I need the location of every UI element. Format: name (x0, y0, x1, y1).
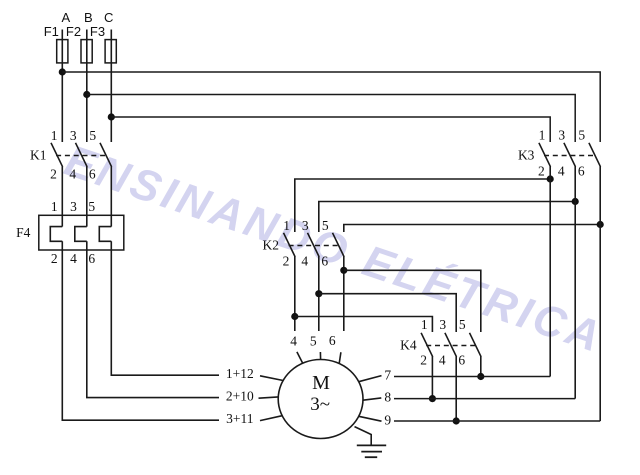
wire phase B vertical (B to K1 pin 3) (86, 30, 88, 143)
svg-text:2: 2 (51, 251, 58, 266)
svg-text:A: A (61, 10, 70, 25)
motor lead 5 tick (319, 352, 321, 360)
F4 heater element pole 1-2 (50, 227, 62, 242)
wire line 9 (394, 420, 600, 422)
K1 contact arm pole 3-4 (76, 143, 88, 167)
svg-text:1: 1 (421, 317, 428, 332)
motor lead 7 tick (359, 376, 382, 382)
svg-text:4: 4 (558, 164, 565, 179)
junction K2 pin 4 node (315, 290, 322, 297)
motor lead 6 tick (339, 352, 341, 363)
wire K2 pin 6 to motor terminal 6 (343, 257, 345, 332)
svg-text:3: 3 (558, 127, 565, 142)
svg-text:F3: F3 (90, 24, 105, 39)
motor lead 1+12 tick (260, 376, 283, 381)
wire motor frame to ground (355, 427, 372, 445)
svg-text:3~: 3~ (310, 394, 330, 415)
svg-text:2: 2 (420, 352, 427, 367)
svg-text:9: 9 (384, 412, 391, 427)
svg-text:1: 1 (51, 199, 58, 214)
svg-text:4: 4 (70, 251, 77, 266)
junction K4 pin 6 node (477, 373, 484, 380)
overload relay F4 body (39, 215, 124, 250)
wire K3 pin 6 riser to line 9 (599, 167, 601, 422)
ground symbol bar 2 (361, 451, 382, 453)
wire F4 pin 6 to motor terminal 1+12 (111, 241, 219, 375)
svg-text:4: 4 (290, 334, 297, 349)
wire K1 pin 2 to F4 heater 1 (61, 167, 63, 227)
motor lead 9 tick (359, 416, 382, 421)
junction K3 pin 6 node (597, 221, 604, 228)
wire K3 pin 4 rail to K2 pin 3 (319, 202, 575, 233)
motor lead 3+11 tick (260, 416, 282, 421)
K4 contact arm pole 3-4 (445, 333, 457, 357)
K4 contact arm pole 5-6 (470, 333, 482, 357)
fuse F1 body (57, 40, 68, 63)
svg-text:6: 6 (89, 166, 96, 181)
svg-text:F1: F1 (44, 24, 59, 39)
K2 contact arm pole 5-6 (333, 233, 345, 257)
svg-text:4: 4 (69, 166, 76, 181)
svg-text:1: 1 (539, 127, 546, 142)
svg-text:6: 6 (329, 333, 336, 348)
svg-text:2: 2 (538, 164, 545, 179)
svg-text:C: C (104, 10, 113, 25)
contactor K4 coil-link dashed line (426, 345, 475, 347)
motor lead 2+10 tick (259, 397, 279, 398)
K2 contact arm pole 3-4 (308, 233, 320, 257)
wire F4 pin 4 to motor terminal 2+10 (87, 241, 219, 397)
svg-text:4: 4 (439, 352, 446, 367)
svg-text:3: 3 (70, 199, 77, 214)
junction K4 pin 2 node (429, 395, 436, 402)
junction node C on phase C (108, 113, 115, 120)
wire K3 pin 2 riser to line 7 (549, 167, 551, 377)
K1 contact arm pole 5-6 (100, 143, 112, 167)
wire K2 pin 4 to motor terminal 5 (318, 257, 320, 332)
wire K2 pin 4 rail to K4 pin 3 (319, 294, 456, 332)
svg-text:5: 5 (322, 218, 329, 233)
F4 heater element pole 5-6 (99, 227, 111, 242)
wire K4 pin 4 to line 9 (455, 357, 457, 422)
junction K2 pin 6 node (340, 267, 347, 274)
svg-text:M: M (312, 372, 330, 394)
wire K1 pin 4 to F4 heater 3 (86, 167, 88, 227)
svg-text:K1: K1 (30, 148, 47, 163)
F4 heater element pole 3-4 (75, 227, 87, 242)
svg-text:2+10: 2+10 (226, 388, 254, 403)
svg-text:5: 5 (459, 317, 466, 332)
svg-text:K2: K2 (263, 238, 280, 253)
junction K2 pin 2 node (291, 313, 298, 320)
wire K2 pin 2 to motor terminal 4 (294, 257, 296, 332)
ground symbol bar 3 (365, 456, 377, 458)
K1 contact arm pole 1-2 (51, 143, 63, 167)
junction node A on phase A (59, 68, 66, 75)
wire phase A vertical (A to K1 pin 1) (61, 30, 63, 143)
K3 contact arm pole 5-6 (589, 143, 601, 167)
wire K2 pin 2 rail to K4 pin 1 (295, 317, 433, 333)
svg-text:2: 2 (283, 253, 290, 268)
svg-text:1+12: 1+12 (226, 366, 254, 381)
svg-text:6: 6 (321, 253, 328, 268)
wire phase C vertical (C to K1 pin 5) (110, 30, 112, 143)
fuse F2 body (81, 40, 92, 63)
motor lead 8 tick (363, 398, 381, 400)
junction K4 pin 4 node (453, 417, 460, 424)
fuse F3 body (105, 40, 116, 63)
svg-text:5: 5 (310, 333, 317, 348)
svg-text:B: B (84, 10, 93, 25)
svg-text:6: 6 (88, 251, 95, 266)
svg-text:3+11: 3+11 (226, 411, 253, 426)
wire line 7 (394, 376, 550, 378)
svg-text:3: 3 (439, 317, 446, 332)
junction K3 pin 2 node (547, 175, 554, 182)
wire phase C rail to K3 pin 1 (111, 117, 550, 142)
svg-text:K3: K3 (518, 148, 535, 163)
svg-text:6: 6 (578, 164, 585, 179)
wire K4 pin 6 to line 7 (480, 357, 482, 377)
svg-text:7: 7 (384, 368, 391, 383)
svg-text:F4: F4 (16, 225, 31, 240)
wire K4 pin 2 to line 8 (431, 357, 433, 399)
wire K2 pin 6 rail to K4 pin 5 (344, 270, 481, 332)
svg-text:5: 5 (88, 199, 95, 214)
svg-text:1: 1 (51, 128, 58, 143)
K2 contact arm pole 1-2 (284, 233, 296, 257)
wire phase B rail to K3 pin 3 (87, 95, 575, 143)
svg-text:3: 3 (302, 218, 309, 233)
wire F4 pin 2 to motor terminal 3+11 (62, 241, 219, 420)
svg-text:2: 2 (50, 166, 57, 181)
wire K3 pin 2 rail to K2 pin 1 (295, 179, 550, 232)
K3 contact arm pole 1-2 (539, 143, 551, 167)
svg-text:5: 5 (89, 128, 96, 143)
contactor K1 coil-link dashed line (56, 155, 106, 157)
svg-text:1: 1 (283, 218, 290, 233)
svg-text:4: 4 (301, 253, 308, 268)
motor M 3~ body (278, 360, 363, 439)
K4 contact arm pole 1-2 (421, 333, 433, 357)
contactor K2 coil-link dashed line (289, 245, 339, 247)
svg-text:5: 5 (578, 127, 585, 142)
svg-text:8: 8 (384, 390, 391, 405)
motor lead 4 tick (297, 352, 303, 363)
svg-text:F2: F2 (66, 24, 81, 39)
wire K1 pin 6 to F4 heater 5 (110, 167, 112, 227)
svg-text:3: 3 (70, 128, 77, 143)
contactor K3 coil-link dashed line (544, 155, 595, 157)
svg-text:K4: K4 (400, 338, 417, 353)
wire line 8 (394, 398, 575, 400)
svg-text:6: 6 (458, 352, 465, 367)
junction node B on phase B (83, 91, 90, 98)
ground symbol bar 1 (357, 444, 386, 446)
wire phase A rail to K3 pin 5 (62, 72, 600, 142)
junction K3 pin 4 node (572, 198, 579, 205)
K3 contact arm pole 3-4 (564, 143, 576, 167)
wire K3 pin 6 rail to K2 pin 5 (344, 225, 600, 233)
wire K3 pin 4 riser to line 8 (574, 167, 576, 399)
